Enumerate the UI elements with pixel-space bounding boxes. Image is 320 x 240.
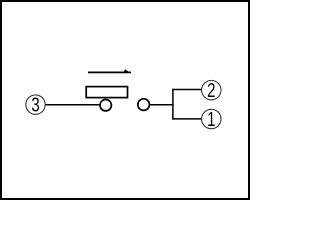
terminal 2	[202, 79, 221, 102]
actuation direction arrow	[88, 69, 131, 73]
wire to terminal 1	[172, 118, 201, 120]
terminal 1	[202, 108, 221, 131]
svg-text:1: 1	[207, 108, 215, 131]
svg-text:2: 2	[207, 79, 215, 102]
fixed contact	[138, 99, 150, 111]
wire vertical branch	[172, 89, 174, 120]
terminal 3	[26, 93, 45, 116]
wire to terminal 2	[172, 89, 201, 91]
movable contact	[100, 100, 111, 111]
svg-text:3: 3	[31, 93, 39, 116]
wire terminal 3 to movable contact	[45, 104, 100, 106]
slider (movable contact carrier)	[86, 87, 127, 98]
wire fixed contact to junction	[150, 104, 174, 106]
